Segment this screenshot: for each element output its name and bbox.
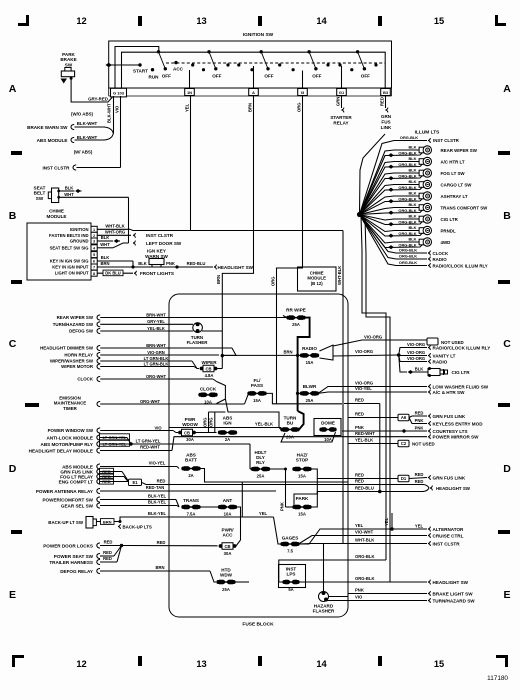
wire BLK-WHT to ABS MODULE (W/ ABS) xyxy=(37,135,105,155)
wire ORG-WHT to EMISSION MAINTENANCE TIMER xyxy=(54,396,245,411)
fuse RADIO 15A xyxy=(300,346,319,365)
chime module pin 3 GROUND xyxy=(70,238,97,244)
ignition switch connector strip xyxy=(109,88,392,96)
svg-text:RED: RED xyxy=(415,479,424,484)
svg-text:1: 1 xyxy=(93,228,95,232)
ignition switch wafer OFF 1 xyxy=(157,50,171,78)
svg-text:BLK: BLK xyxy=(409,156,417,161)
ignition output stubs to connectors xyxy=(190,66,342,88)
svg-text:ANT: ANT xyxy=(223,498,233,503)
svg-text:FUSE BLOCK: FUSE BLOCK xyxy=(242,622,274,628)
svg-text:TIMER: TIMER xyxy=(63,406,77,411)
svg-text:NOT USED: NOT USED xyxy=(441,340,464,345)
svg-text:15A: 15A xyxy=(298,512,306,517)
svg-text:IGN KEY: IGN KEY xyxy=(147,249,166,254)
svg-text:SW: SW xyxy=(36,196,44,201)
seat belt switch SW xyxy=(34,186,61,203)
illum lamp branch 4WD xyxy=(360,215,451,250)
chime module box xyxy=(27,209,91,281)
svg-text:LT GRN-YEL: LT GRN-YEL xyxy=(103,435,127,440)
wire BLK-YEL to POWER/COMFORT SW xyxy=(42,494,179,507)
svg-text:PNK: PNK xyxy=(279,502,284,511)
wire ORG ORG jumpers to abs ign xyxy=(194,412,225,433)
svg-text:CB: CB xyxy=(224,544,230,549)
svg-text:BLK: BLK xyxy=(409,168,417,173)
chime module pin 2 FASTEN BELTS IND xyxy=(49,232,97,238)
svg-text:CLOCK: CLOCK xyxy=(77,377,93,382)
wire RED upper row to vertical xyxy=(344,398,380,492)
wire BLK-YEL / YEL row to gages xyxy=(148,482,281,544)
svg-text:GRY-YEL: GRY-YEL xyxy=(147,319,165,324)
illum lamp branch REAR WIPER SW xyxy=(360,145,478,215)
svg-text:IGNITION SW: IGNITION SW xyxy=(243,32,274,38)
wire ORG-WHT to CLOCK xyxy=(77,374,216,382)
svg-text:VIO-WHT: VIO-WHT xyxy=(355,530,374,535)
svg-text:HEADLIGHT SW: HEADLIGHT SW xyxy=(433,580,469,585)
svg-text:A: A xyxy=(9,83,17,95)
fuse ANT 10A xyxy=(218,498,241,546)
svg-text:RED: RED xyxy=(415,472,424,477)
svg-text:PNK: PNK xyxy=(355,425,364,430)
fuse PARK 15A xyxy=(292,496,311,517)
svg-text:RED: RED xyxy=(102,479,111,484)
wire VIO to POWER WINDOW SW xyxy=(48,425,178,433)
svg-text:HEADLIGHT SW: HEADLIGHT SW xyxy=(436,486,471,491)
wire RED to POWER SEAT SW xyxy=(54,546,122,560)
wire RED-BLU to HEADLIGHT SW xyxy=(348,485,471,494)
svg-text:TURN/HAZARD SW: TURN/HAZARD SW xyxy=(53,322,94,327)
back-up lt switch SW xyxy=(48,517,100,529)
svg-text:1N: 1N xyxy=(187,90,192,95)
chime module pin 7 KEY IN IGN INPUT xyxy=(52,264,97,270)
svg-text:ASHTRAY LT: ASHTRAY LT xyxy=(441,194,468,199)
svg-text:RED: RED xyxy=(379,97,384,106)
svg-text:WHT-ORG: WHT-ORG xyxy=(105,229,125,234)
svg-text:YEL-BLK: YEL-BLK xyxy=(355,438,373,443)
wire GRN from ignition G1 to starter relay xyxy=(330,96,352,125)
svg-text:RADIO/CLOCK ILLUM RLY: RADIO/CLOCK ILLUM RLY xyxy=(433,263,488,268)
svg-text:TRANS: TRANS xyxy=(183,498,199,503)
svg-text:C2: C2 xyxy=(401,441,407,446)
svg-text:GAGES: GAGES xyxy=(282,535,299,540)
svg-text:30A: 30A xyxy=(224,551,232,556)
wire RED to POWER DOOR LOCKS xyxy=(43,540,217,549)
svg-text:BRAKE LIGHT SW: BRAKE LIGHT SW xyxy=(433,591,474,596)
svg-text:LT GRN-YEL: LT GRN-YEL xyxy=(103,441,127,446)
wire YEL-BLK to DEFOG SW xyxy=(69,326,193,334)
wire PNK to COURTESY LTS xyxy=(342,425,468,434)
svg-text:ALTERNATOR: ALTERNATOR xyxy=(433,527,465,532)
svg-text:CLOCK: CLOCK xyxy=(200,386,217,391)
svg-text:KEYLESS ENTRY MOD: KEYLESS ENTRY MOD xyxy=(433,421,484,426)
wire BLK-WHT to BRAKE WARN SW (W/O ABS) xyxy=(27,112,105,130)
svg-text:7.5: 7.5 xyxy=(287,549,293,554)
svg-text:ORG-BLK: ORG-BLK xyxy=(398,173,416,178)
park brake switch SW xyxy=(60,52,76,77)
svg-text:15: 15 xyxy=(434,16,444,26)
wire ORG-BLK to CLOCK (illum) xyxy=(360,215,449,256)
svg-text:KEY IN IGN SW SIG: KEY IN IGN SW SIG xyxy=(50,259,89,264)
wire ORG-BLK to HEADLIGHT SW xyxy=(348,576,469,585)
svg-text:WHT-BLK: WHT-BLK xyxy=(337,266,342,285)
svg-text:VIO-ORG: VIO-ORG xyxy=(364,334,382,339)
fuse CLOCK 10A xyxy=(198,386,217,404)
svg-text:FUS: FUS xyxy=(381,119,390,124)
wire ORG-BLK to RADIO/CLOCK ILLUM RLY (illum) xyxy=(360,215,488,269)
svg-text:BLWR: BLWR xyxy=(303,384,317,389)
svg-text:START: START xyxy=(133,68,148,73)
svg-text:RED: RED xyxy=(355,479,364,484)
circuit breaker WIPER CB 4.8A xyxy=(200,355,223,377)
wire WHT-BLK to INST CLSTR xyxy=(343,538,460,547)
chime module pin 1 IGNITION xyxy=(70,226,97,232)
wire YEL from ignition 1N down to wht-blk row xyxy=(184,96,190,231)
splice connector E1 xyxy=(129,479,147,485)
wire under-bracket turn bu to dome xyxy=(281,432,336,442)
svg-text:POWER SEAT SW: POWER SEAT SW xyxy=(54,554,94,559)
wire WHT-ORG from chime pin 2 to inst clstr xyxy=(97,229,174,238)
svg-text:BLK: BLK xyxy=(101,235,110,240)
svg-text:A: A xyxy=(503,83,511,95)
svg-text:13: 13 xyxy=(196,659,206,669)
svg-text:C: C xyxy=(503,338,511,350)
cigarette lighter CIG LTR xyxy=(428,367,470,377)
svg-text:ORG-BLK: ORG-BLK xyxy=(398,162,416,167)
svg-text:15A: 15A xyxy=(298,474,306,479)
circuit breaker PWR WDOW CB 30A xyxy=(178,417,198,442)
svg-text:12: 12 xyxy=(76,659,86,669)
svg-text:POWER/COMFORT SW: POWER/COMFORT SW xyxy=(42,498,93,503)
circuit breaker PWR/ACC CB 30A xyxy=(219,528,237,556)
wire ORG-BLK row to vertical xyxy=(348,554,386,560)
svg-text:15A: 15A xyxy=(253,398,261,403)
connector I3 xyxy=(298,89,308,96)
svg-text:G 103: G 103 xyxy=(113,91,125,96)
turn flasher xyxy=(187,322,223,345)
svg-text:LT GRN-BLK: LT GRN-BLK xyxy=(144,356,169,361)
fuse TRANS 7.5A xyxy=(181,498,219,517)
wire ORG from ignition I3 down into fuse block xyxy=(270,96,302,404)
svg-text:B3: B3 xyxy=(383,90,389,95)
svg-text:BLK-YEL: BLK-YEL xyxy=(148,511,167,516)
wire RED to A6 splice to GRN FUS LINK xyxy=(348,410,466,420)
svg-text:DOME: DOME xyxy=(321,421,335,426)
ignition switch box SW xyxy=(109,32,392,88)
svg-text:HORN RELAY: HORN RELAY xyxy=(64,353,93,358)
wire PNK to KEYLESS ENTRY MOD xyxy=(409,418,483,427)
chime module (B 12) box xyxy=(298,267,337,291)
svg-text:SEAT BELT SW SIG: SEAT BELT SW SIG xyxy=(50,245,89,250)
svg-text:14: 14 xyxy=(316,659,327,669)
svg-text:VIO-YEL: VIO-YEL xyxy=(149,461,166,466)
svg-text:PNK: PNK xyxy=(415,425,424,430)
svg-text:YEL: YEL xyxy=(355,523,364,528)
radio output flag connector xyxy=(320,345,334,360)
fuse INST LPS 5A box xyxy=(279,565,306,593)
svg-text:12: 12 xyxy=(76,16,86,26)
svg-text:G1: G1 xyxy=(339,90,345,95)
svg-text:RUN: RUN xyxy=(149,75,160,80)
illum lamp branch TRANS COMFORT SW xyxy=(360,202,489,215)
svg-text:E: E xyxy=(9,589,16,601)
svg-text:D1: D1 xyxy=(401,476,407,481)
svg-text:RADIO: RADIO xyxy=(433,359,448,364)
chime module pin 8 LIGHT ON INPUT xyxy=(55,270,97,276)
svg-text:YEL: YEL xyxy=(384,517,389,526)
svg-text:D: D xyxy=(503,463,511,475)
svg-text:RED: RED xyxy=(157,540,166,545)
svg-text:RLY: RLY xyxy=(256,460,265,465)
wire GRY-YEL to TURN/HAZARD SW xyxy=(53,319,193,327)
svg-text:TRAILER HARNESS: TRAILER HARNESS xyxy=(49,560,93,565)
svg-text:ORG-BLK: ORG-BLK xyxy=(398,219,416,224)
wire BRN PNK RED-BLU from chime pin 7 to headlight sw xyxy=(97,261,253,270)
svg-text:BRN-WHT: BRN-WHT xyxy=(146,312,166,317)
wire BRN to DEFOG RELAY xyxy=(60,565,216,582)
svg-text:YEL-BLK: YEL-BLK xyxy=(147,326,165,331)
svg-text:2A: 2A xyxy=(225,437,230,442)
svg-text:BACK-UP LTS: BACK-UP LTS xyxy=(123,525,152,530)
svg-text:PRNDL: PRNDL xyxy=(441,228,456,233)
svg-text:GRN FUS LINK: GRN FUS LINK xyxy=(433,475,466,480)
svg-text:RED: RED xyxy=(157,479,166,484)
svg-text:WHT: WHT xyxy=(100,242,110,247)
ignition switch wafer OFF 3 xyxy=(260,50,274,78)
wire RED-WHT to POWER MIRROR SW xyxy=(348,431,479,440)
svg-text:VIO: VIO xyxy=(355,595,363,600)
svg-text:10A: 10A xyxy=(224,512,232,517)
svg-text:WHT: WHT xyxy=(64,192,74,197)
chime module pin 5 xyxy=(91,252,97,258)
svg-text:HEADLIGHT DELAY MODULE: HEADLIGHT DELAY MODULE xyxy=(29,449,93,454)
svg-text:14: 14 xyxy=(316,16,327,26)
svg-text:GRN: GRN xyxy=(335,97,340,106)
svg-text:BLK: BLK xyxy=(65,185,74,190)
svg-text:TURN/HAZARD SW: TURN/HAZARD SW xyxy=(433,598,476,603)
svg-text:CB: CB xyxy=(205,366,211,371)
ignition contact RUN xyxy=(149,68,160,80)
grid row letters right xyxy=(498,83,511,601)
illum lamp branch PRNDL xyxy=(360,215,456,238)
svg-text:ORG: ORG xyxy=(270,276,275,286)
svg-text:BLK: BLK xyxy=(101,255,110,260)
wire rr wipe fuse output bus xyxy=(298,318,310,430)
wire ORG-BLK to RADIO (illum) xyxy=(360,215,448,262)
svg-text:CHIME: CHIME xyxy=(49,209,64,214)
svg-text:FOG LT SW: FOG LT SW xyxy=(441,171,466,176)
svg-text:ANTI-LOCK MODULE: ANTI-LOCK MODULE xyxy=(47,436,93,441)
svg-text:WIPER: WIPER xyxy=(201,360,217,365)
wire LT GRN-YEL to ANTI-LOCK MODULE xyxy=(47,434,131,444)
svg-text:FRONT LIGHTS: FRONT LIGHTS xyxy=(140,271,174,276)
svg-text:YEL: YEL xyxy=(184,103,189,112)
svg-text:RED: RED xyxy=(104,540,113,545)
wire RED from ignition B3 to grn fus link xyxy=(379,96,392,130)
svg-text:BLK: BLK xyxy=(409,202,417,207)
svg-text:RADIO/CLOCK ILLUM RLY: RADIO/CLOCK ILLUM RLY xyxy=(433,345,491,350)
wire BRN-WHT to HEADLIGHT DIMMER SW xyxy=(40,343,236,356)
svg-text:5: 5 xyxy=(93,253,95,257)
ignition feed wire from connector G 103 to START contact xyxy=(115,47,385,89)
svg-text:RADIO: RADIO xyxy=(433,257,448,262)
svg-text:BLK: BLK xyxy=(409,179,417,184)
svg-text:15A: 15A xyxy=(306,360,314,365)
svg-text:13: 13 xyxy=(196,16,206,26)
svg-text:POWER MIRROR SW: POWER MIRROR SW xyxy=(433,435,480,440)
node illum lts fan junction xyxy=(357,212,362,217)
svg-text:RED: RED xyxy=(355,398,364,403)
wire RED to D1 splice to GRN FUS LINK xyxy=(348,472,466,482)
svg-text:BLK-WHT: BLK-WHT xyxy=(107,103,112,123)
wire LT GRN-BLK to WIPER MOTOR xyxy=(61,361,197,369)
svg-text:ORG-BLK: ORG-BLK xyxy=(399,254,417,259)
svg-text:BU: BU xyxy=(287,421,294,426)
wire BLK to CIG LTR xyxy=(399,355,428,374)
svg-text:LT GRN-BLK: LT GRN-BLK xyxy=(144,361,169,366)
svg-text:BRN: BRN xyxy=(155,565,164,570)
svg-text:OFF: OFF xyxy=(361,74,370,79)
svg-text:10A: 10A xyxy=(324,437,332,442)
svg-text:VIO-ORG: VIO-ORG xyxy=(407,350,425,355)
wire PNK to BRAKE LIGHT SW xyxy=(348,588,473,597)
svg-text:E: E xyxy=(503,589,510,601)
svg-text:ORG-BLK: ORG-BLK xyxy=(398,231,416,236)
svg-text:VIO-GRN: VIO-GRN xyxy=(147,350,165,355)
wire VIO-YEL to ABS MODULE xyxy=(62,461,179,470)
svg-text:ORG-BLK: ORG-BLK xyxy=(355,576,375,581)
svg-text:A: A xyxy=(252,90,255,95)
wire RED to TRAILER HARNESS xyxy=(49,546,121,566)
svg-text:BRN: BRN xyxy=(216,275,221,284)
illum lamp branch A/C HTR LT xyxy=(360,156,465,214)
svg-text:OFF: OFF xyxy=(162,74,171,79)
illum lamp branch FOG LT SW xyxy=(360,168,466,215)
svg-text:GEAR SEL SW: GEAR SEL SW xyxy=(61,504,94,509)
fuse ABS IGN 2A xyxy=(218,416,237,443)
svg-text:ACC: ACC xyxy=(173,66,184,71)
svg-text:WDW: WDW xyxy=(220,573,233,578)
svg-text:2A: 2A xyxy=(188,473,193,478)
svg-text:CB: CB xyxy=(184,430,190,435)
svg-text:BLK-YEL: BLK-YEL xyxy=(148,494,167,499)
svg-text:ORG-BLK: ORG-BLK xyxy=(399,260,417,265)
svg-text:INST CLSTR: INST CLSTR xyxy=(433,138,460,143)
svg-text:BRN: BRN xyxy=(100,261,109,266)
fuse HTD WDW 25A xyxy=(216,568,249,592)
svg-text:ORG-BLK: ORG-BLK xyxy=(398,196,416,201)
wire VIO to TURN/HAZARD SW xyxy=(348,595,475,604)
svg-text:B: B xyxy=(503,210,511,222)
clock output flag connector xyxy=(217,382,226,404)
wire BLK from chime pin 6 xyxy=(97,255,133,267)
wire GRY-RED from park brake sw to ignition connector G 103 xyxy=(70,77,113,102)
svg-text:A6: A6 xyxy=(401,415,407,420)
svg-text:25A: 25A xyxy=(222,587,230,592)
svg-text:CRUISE CTRL: CRUISE CTRL xyxy=(433,533,464,538)
svg-text:RED-BLU: RED-BLU xyxy=(355,486,374,491)
wire RED to GRN FUS LINK (boxed) xyxy=(60,468,128,480)
svg-text:WDOW: WDOW xyxy=(182,422,198,427)
connector G 103 xyxy=(111,88,127,97)
svg-text:ORG-BLK: ORG-BLK xyxy=(355,554,375,559)
svg-text:RED: RED xyxy=(103,556,112,561)
connector A xyxy=(249,89,259,96)
wire BLK-YEL to GEAR SEL SW xyxy=(61,500,179,509)
svg-text:BLK: BLK xyxy=(409,191,417,196)
wire BRN to radio fuse xyxy=(222,349,301,357)
fuse block outline xyxy=(169,294,348,628)
grid ruler top xyxy=(18,15,506,26)
svg-text:2: 2 xyxy=(93,234,95,238)
wire BRN from ignition A down into fuse block xyxy=(216,96,253,355)
svg-text:RED: RED xyxy=(415,410,424,415)
svg-text:WIPER/WASHER SW: WIPER/WASHER SW xyxy=(50,359,94,364)
wire RED to FOG LT RELAY (boxed) xyxy=(60,473,128,481)
ignition spare contacts xyxy=(191,63,378,71)
wire WHT from chime pin 4 to left door sw xyxy=(97,241,182,248)
svg-text:BLK: BLK xyxy=(409,237,417,242)
svg-text:FASTEN BELTS IND: FASTEN BELTS IND xyxy=(49,233,88,238)
svg-text:A/C HTR LT: A/C HTR LT xyxy=(441,159,465,164)
wire YEL-BLK to turn bu fuse xyxy=(169,422,281,430)
svg-text:RED: RED xyxy=(355,412,364,417)
svg-text:PNK: PNK xyxy=(166,261,175,266)
illum lamp branch CIG LTR xyxy=(360,214,459,227)
svg-text:RADIO: RADIO xyxy=(302,346,317,351)
svg-text:HEADLIGHT SW: HEADLIGHT SW xyxy=(218,265,254,270)
ignition wafer dashed common line xyxy=(166,62,385,64)
svg-text:VIO-YEL: VIO-YEL xyxy=(355,386,372,391)
wire VIO-ORG to RADIO xyxy=(399,355,448,364)
svg-text:ORG-BLK: ORG-BLK xyxy=(398,185,416,190)
svg-text:FLASHER: FLASHER xyxy=(313,609,335,614)
ignition switch wafer OFF 2 xyxy=(207,50,221,78)
svg-text:POWER WINDOW SW: POWER WINDOW SW xyxy=(48,428,94,433)
fuse FL/PASS 15A xyxy=(245,378,343,404)
svg-text:BLK: BLK xyxy=(409,214,417,219)
svg-text:BRN: BRN xyxy=(247,103,252,112)
svg-text:YEL: YEL xyxy=(259,511,268,516)
svg-text:NOT USED: NOT USED xyxy=(412,441,435,446)
svg-text:BACK-UP LT SW: BACK-UP LT SW xyxy=(48,520,84,525)
svg-text:30A: 30A xyxy=(186,437,194,442)
svg-text:ORG: ORG xyxy=(209,417,214,427)
wire bus from clock flag to turn bu fuse xyxy=(216,399,279,428)
svg-text:C: C xyxy=(9,338,17,350)
svg-text:PARK: PARK xyxy=(296,496,309,501)
svg-text:YEL: YEL xyxy=(415,523,424,528)
svg-text:LT GRN-YEL: LT GRN-YEL xyxy=(136,438,161,443)
grid ruler bottom xyxy=(12,655,508,682)
svg-text:LPS: LPS xyxy=(287,572,296,577)
svg-text:RED-WHT: RED-WHT xyxy=(140,445,160,450)
ignition contact ACC xyxy=(173,61,184,72)
svg-text:KEY IN IGN INPUT: KEY IN IGN INPUT xyxy=(52,265,89,270)
svg-text:RED: RED xyxy=(103,550,112,555)
wire RED-TAN to POWER ANTENNA RELAY xyxy=(36,485,276,494)
wire WHT-BLK vertical down right side of fuse block xyxy=(337,231,343,544)
illum lamp branch CARGO LT SW xyxy=(360,179,473,214)
fuse GAGES 7.5 xyxy=(280,535,299,553)
wire VIO-ORG trunk to radio/clock cluster xyxy=(333,349,401,357)
svg-text:DEFOG SW: DEFOG SW xyxy=(69,329,94,334)
svg-text:BRN-WHT: BRN-WHT xyxy=(146,343,166,348)
wire VIO to INST CLSTR xyxy=(42,165,120,171)
svg-text:7.5A: 7.5A xyxy=(187,512,196,517)
wire VIO-ORG to LOW WASHER FLUID SW xyxy=(348,381,489,390)
wire ORG-BLK from inst lps to right xyxy=(298,581,348,583)
wire YEL to ALTERNATOR xyxy=(348,513,464,532)
